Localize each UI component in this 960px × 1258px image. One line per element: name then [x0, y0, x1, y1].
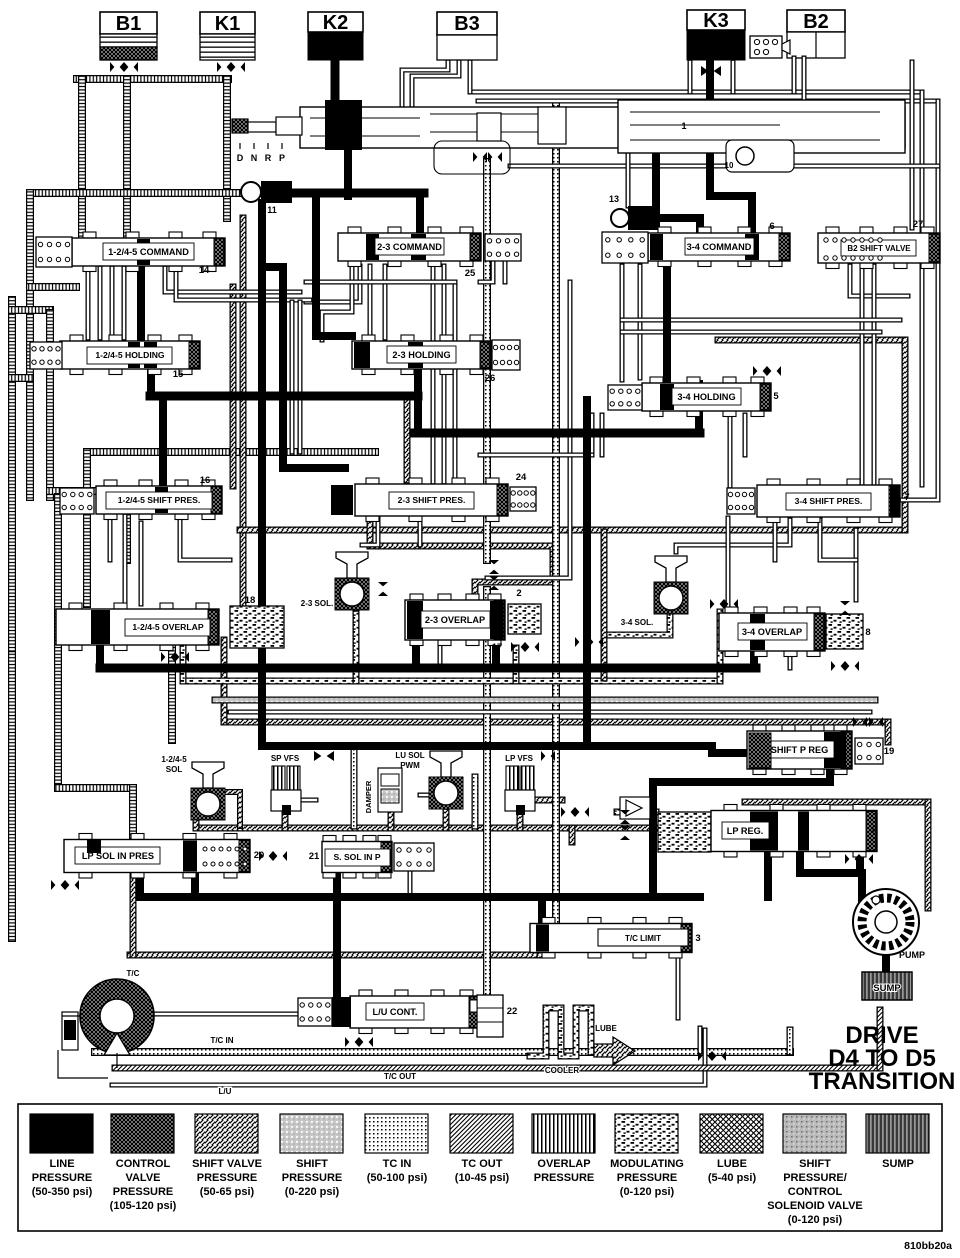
svg-text:PRESSURE: PRESSURE	[197, 1172, 258, 1184]
wire far left ladder	[8, 300, 16, 660]
wire ladder y790	[58, 784, 133, 792]
valve 3-4 COMMAND (6)	[648, 221, 790, 267]
connector for shift p reg	[855, 738, 883, 764]
wire ovl1 riser	[96, 644, 104, 668]
clutch K3	[687, 10, 745, 60]
svg-text:(0-120 psi): (0-120 psi)	[620, 1186, 675, 1198]
svg-text:(0-220 psi): (0-220 psi)	[285, 1186, 340, 1198]
torque converter	[62, 969, 154, 1068]
valve 22	[470, 995, 517, 1037]
svg-text:R: R	[265, 153, 272, 163]
svg-text:LINE: LINE	[49, 1158, 74, 1170]
valve B2 SHIFT VALVE (27)	[818, 219, 940, 269]
wire sv riser sol1	[193, 792, 200, 828]
wire hold3 conn drop b	[600, 415, 605, 455]
wire tc frame	[58, 1050, 108, 1078]
wire lpreg down c	[856, 851, 864, 873]
wire mid v c	[431, 266, 436, 482]
wire lucont left lines	[155, 1012, 300, 1017]
wire spvfs link	[300, 798, 316, 803]
wire ladder lp sol feed	[129, 788, 137, 840]
wire line x570	[487, 282, 570, 578]
svg-text:D: D	[237, 153, 244, 163]
svg-text:COOLER: COOLER	[545, 1066, 579, 1075]
hatched cap of shift p reg	[749, 733, 771, 768]
svg-text:(5-40 psi): (5-40 psi)	[708, 1172, 757, 1184]
wire pump feed	[858, 873, 866, 902]
wire sp1 out	[180, 516, 230, 560]
legend swatch TC OUT (10-45 psi)	[450, 1114, 513, 1184]
wire sv riser lpvfs	[517, 812, 524, 828]
check valve below K3	[701, 66, 721, 76]
modulating box of 3-4 overlap	[826, 614, 863, 649]
wire cmd1 to holding a	[98, 268, 103, 338]
svg-text:(0-120 psi): (0-120 psi)	[788, 1214, 843, 1226]
wire tclimit feed	[538, 897, 546, 924]
svg-text:1: 1	[681, 121, 686, 131]
svg-text:TRANSITION: TRANSITION	[809, 1068, 956, 1095]
svg-text:MODULATING: MODULATING	[610, 1158, 684, 1170]
valve 3-4 HOLDING (5)	[642, 377, 779, 417]
wire ladder x58 lower	[54, 497, 62, 788]
valve 1-2/4-5 COMMAND (14)	[72, 232, 225, 276]
svg-text:PUMP: PUMP	[899, 950, 925, 960]
wire rail y282	[306, 280, 455, 285]
wire tc drop x475	[472, 777, 479, 826]
wire ssol conn drop	[408, 872, 413, 897]
wire x728 drop	[726, 518, 731, 612]
wire drop x316	[316, 193, 352, 336]
wire tc drop x354	[351, 750, 358, 826]
wire B1 drop right	[123, 79, 131, 236]
svg-text:T/C: T/C	[127, 969, 140, 978]
wire sv trunk y530	[240, 527, 905, 534]
label T/C IN	[210, 1036, 233, 1045]
wire TC IN riser	[787, 1030, 794, 1052]
wire k3 stub	[688, 62, 693, 92]
wire sv line x233	[230, 287, 237, 486]
svg-text:B1: B1	[116, 13, 142, 35]
wire shift pressure trunk y700	[215, 697, 875, 704]
wire sv trunk y955	[130, 952, 540, 959]
svg-text:OVERLAP: OVERLAP	[537, 1158, 590, 1170]
valve T/C LIMIT (3)	[530, 918, 701, 959]
wire right line x922	[920, 92, 925, 485]
wire sp1 feed	[159, 396, 167, 486]
wire sv loop pump right	[925, 802, 932, 908]
svg-text:(50-65 psi): (50-65 psi)	[200, 1186, 255, 1198]
wire tclimit out	[676, 952, 681, 1018]
wire trunk y433	[414, 429, 700, 438]
solenoid LP VFS	[505, 754, 535, 815]
solenoid 1-2/4-5 SOL	[161, 755, 225, 820]
clutch B1	[100, 12, 157, 60]
wire lucont right out	[480, 1010, 500, 1015]
wire K2 to trunk	[344, 150, 352, 196]
svg-text:3-4 SOL.: 3-4 SOL.	[621, 618, 653, 627]
wire sp2 drop	[418, 517, 423, 545]
legend swatch OVERLAP PRESSURE	[532, 1114, 595, 1184]
svg-text:2-3 OVERLAP: 2-3 OVERLAP	[425, 615, 485, 625]
wire lu cont line	[112, 1030, 705, 1085]
wire cmd3 to holding b	[638, 266, 643, 378]
wire cmd2 to holding a	[368, 266, 373, 338]
valve S. SOL IN P (21)	[309, 836, 392, 879]
lube arrow	[594, 1037, 635, 1065]
wire sv loop pump top	[745, 799, 928, 806]
wire hold3 conn drop a	[590, 415, 595, 455]
wire cmd2 out left	[306, 266, 360, 302]
wire overlap trunk y668	[100, 664, 756, 673]
wire sv lp vfs out	[534, 797, 562, 804]
svg-text:LU SOL: LU SOL	[395, 751, 424, 760]
wire hold1 out	[147, 369, 155, 396]
svg-text:L/U CONT.: L/U CONT.	[373, 1007, 418, 1017]
check valves below B1	[110, 62, 138, 72]
wire cmd2 conn up b	[503, 262, 508, 282]
svg-text:CONTROL: CONTROL	[116, 1158, 171, 1170]
wire mid v e	[453, 284, 458, 482]
wire K2 feed	[331, 60, 340, 103]
svg-text:15: 15	[173, 369, 184, 380]
svg-text:SOL: SOL	[166, 765, 183, 774]
wire valve outlet y166	[510, 164, 938, 169]
wire sv riser lusol	[443, 812, 450, 828]
svg-text:3-4 OVERLAP: 3-4 OVERLAP	[742, 627, 802, 637]
connector for 2-3 holding	[492, 340, 520, 370]
svg-text:PRESSURE: PRESSURE	[113, 1186, 174, 1198]
pump	[853, 889, 925, 960]
node 11	[241, 181, 292, 215]
wire cmd1 drop c	[86, 268, 91, 338]
wire cmd3 to holding a	[620, 266, 625, 380]
check valves below manual valve	[434, 141, 510, 174]
connector for 1-2/4-5 holding	[30, 342, 62, 369]
valve 3-4 SHIFT PRES. (7)	[757, 479, 910, 523]
svg-text:SUMP: SUMP	[882, 1158, 914, 1170]
svg-text:PRESSURE: PRESSURE	[32, 1172, 93, 1184]
svg-text:5: 5	[773, 391, 779, 402]
wire rail to ovl3	[854, 530, 859, 600]
svg-text:(105-120 psi): (105-120 psi)	[110, 1200, 177, 1212]
wire B2 drop b	[802, 58, 807, 101]
node 13	[609, 194, 660, 230]
svg-text:SHIFT: SHIFT	[799, 1158, 831, 1170]
svg-text:PWM: PWM	[400, 761, 420, 770]
wire K1 drop	[223, 79, 231, 218]
wire tc line x556	[552, 105, 560, 925]
svg-text:22: 22	[507, 1006, 518, 1017]
wire sv loop 3-4 right	[902, 340, 909, 530]
wire TC OUT riser	[877, 1010, 884, 1068]
svg-text:(10-45 psi): (10-45 psi)	[455, 1172, 510, 1184]
manual selector valve 1	[232, 100, 905, 153]
wire ovl2 riser	[412, 640, 420, 668]
wire lucont drop dots	[698, 1028, 703, 1052]
svg-text:LP REG.: LP REG.	[727, 826, 764, 836]
label COOLER	[545, 1066, 579, 1075]
wire ladder x172	[168, 648, 176, 740]
drawing number	[904, 1240, 952, 1252]
valve 2-3 SHIFT PRES. (24)	[331, 472, 527, 522]
svg-text:14: 14	[199, 265, 210, 276]
wire TC OUT trunk	[115, 1065, 880, 1072]
legend swatch SHIFT PRESSURE (0-220 psi)	[280, 1114, 343, 1198]
wire k3 line b	[731, 62, 736, 92]
wire shiftpreg out	[653, 768, 830, 897]
connector for 3-4 command	[602, 232, 648, 263]
svg-text:13: 13	[609, 194, 619, 204]
wire sv stub x888	[885, 722, 892, 742]
wire sv riser tclimit	[537, 953, 544, 955]
wire cmd3 through	[663, 265, 671, 382]
legend swatch MODULATING PRESSURE (0-120 psi)	[610, 1114, 684, 1198]
wire cmd2 conn up a	[480, 262, 493, 282]
svg-text:26: 26	[485, 373, 496, 384]
wire left link y378	[12, 374, 30, 382]
wire sv feed 2-3 shift pres	[404, 400, 411, 480]
svg-text:4: 4	[869, 825, 875, 836]
svg-text:3-4 SHIFT PRES.: 3-4 SHIFT PRES.	[795, 496, 863, 506]
svg-text:1-2/4-5 COMMAND: 1-2/4-5 COMMAND	[108, 247, 189, 257]
svg-text:3: 3	[695, 933, 700, 944]
svg-text:2-3 SHIFT PRES.: 2-3 SHIFT PRES.	[398, 495, 466, 505]
wire mod riser 3-4sol	[604, 613, 670, 635]
clutch K2	[308, 12, 363, 60]
svg-text:3-4 COMMAND: 3-4 COMMAND	[687, 242, 752, 252]
svg-text:24: 24	[516, 472, 527, 483]
check valve symbols	[51, 366, 883, 1061]
wire ovl3 drop thin	[788, 653, 793, 668]
wire sv drop ssol	[569, 828, 576, 842]
svg-text:TC IN: TC IN	[383, 1158, 412, 1170]
valve L/U CONT (22)	[332, 990, 480, 1034]
wire far left lower ladder	[8, 655, 16, 938]
svg-text:DAMPER: DAMPER	[364, 780, 373, 813]
wire mod link lp reg	[617, 809, 656, 816]
svg-text:PRESSURE: PRESSURE	[534, 1172, 595, 1184]
svg-text:S. SOL IN P: S. SOL IN P	[333, 852, 380, 862]
label L/U	[219, 1087, 232, 1096]
svg-text:B2 SHIFT VALVE: B2 SHIFT VALVE	[847, 244, 911, 253]
wire K3 drop	[710, 62, 752, 236]
svg-text:T/C OUT: T/C OUT	[384, 1072, 416, 1081]
wire cmd1 to holding b	[110, 268, 115, 338]
wire branch x283	[262, 267, 345, 468]
wire tc line x487 lower	[483, 590, 491, 995]
svg-text:2-3 COMMAND: 2-3 COMMAND	[377, 242, 442, 252]
wire node13 out	[660, 218, 700, 236]
svg-text:SHIFT: SHIFT	[296, 1158, 328, 1170]
wire sp2 to 2-3 sol	[362, 517, 378, 545]
wire trunk y396	[150, 392, 418, 401]
wire main drop x262	[258, 203, 266, 746]
svg-text:SHIFT VALVE: SHIFT VALVE	[192, 1158, 262, 1170]
valve 1-2/4-5 SHIFT PRES. (16)	[96, 475, 222, 520]
svg-text:(50-100 psi): (50-100 psi)	[367, 1172, 428, 1184]
svg-text:2-3 HOLDING: 2-3 HOLDING	[392, 350, 450, 360]
svg-text:CONTROL: CONTROL	[788, 1186, 843, 1198]
solenoid SP VFS	[271, 754, 301, 815]
svg-text:PRESSURE: PRESSURE	[282, 1172, 343, 1184]
connector for l/u cont	[298, 998, 332, 1026]
modulating box of 2-3 overlap	[508, 604, 541, 634]
wire supply rail y79	[77, 75, 228, 83]
valve 9	[620, 788, 655, 819]
wire ladder to overlap1	[83, 452, 91, 604]
svg-text:K1: K1	[215, 13, 241, 35]
pin 10	[725, 140, 794, 172]
wire rail y332 right	[622, 330, 880, 335]
solenoid LU SOL PWM	[395, 751, 463, 809]
wire mid v a	[290, 302, 295, 452]
svg-text:LP VFS: LP VFS	[505, 754, 534, 763]
svg-text:T/C LIMIT: T/C LIMIT	[625, 934, 661, 943]
valve SHIFT P REG (19)	[747, 725, 894, 775]
svg-text:8: 8	[865, 627, 870, 638]
svg-text:11: 11	[267, 205, 277, 215]
svg-text:(50-350 psi): (50-350 psi)	[32, 1186, 93, 1198]
wire right v b	[872, 266, 877, 486]
svg-text:1-2/4-5 OVERLAP: 1-2/4-5 OVERLAP	[132, 622, 203, 632]
wire bottom trunk y897	[140, 893, 700, 901]
svg-text:27: 27	[913, 219, 924, 230]
wire top rail y101	[478, 99, 938, 104]
svg-text:16: 16	[200, 475, 211, 486]
svg-text:SOLENOID VALVE: SOLENOID VALVE	[767, 1200, 863, 1212]
wire cmd2 to holding b	[383, 266, 388, 338]
solenoid 2-3 SOL	[301, 552, 369, 610]
wire cooler coil	[530, 1008, 591, 1056]
wire lpreg down b	[800, 851, 862, 873]
connector for 2-3 command	[485, 234, 521, 261]
connector for 1-2/4-5 shift pres	[60, 488, 94, 514]
wire node13 feed thin	[626, 150, 631, 206]
wire lp sol left stub	[136, 872, 144, 897]
T/C LIMIT label box	[598, 929, 688, 946]
svg-text:TC OUT: TC OUT	[462, 1158, 503, 1170]
wire B2 right line	[910, 62, 915, 228]
wire cmd1 out right	[165, 268, 300, 292]
check valves below K1	[217, 62, 245, 72]
wire right line x938	[902, 101, 938, 500]
part 17	[492, 642, 503, 653]
wire sv z-path	[370, 517, 553, 606]
svg-text:B2: B2	[803, 11, 829, 33]
vertical check symbols	[378, 560, 850, 840]
wire b3 valve line	[468, 62, 473, 92]
svg-text:K2: K2	[323, 12, 349, 34]
wire sv line x243	[240, 218, 247, 627]
wire sv sol1 link	[222, 792, 240, 826]
wire trunk y746	[262, 746, 748, 753]
wire ovl3 riser	[750, 650, 758, 668]
svg-text:810bb20a: 810bb20a	[904, 1240, 952, 1252]
valve LP REG (4)	[711, 805, 877, 858]
valve 1-2/4-5 OVERLAP (18)	[56, 595, 255, 651]
slug lp sol left	[87, 840, 101, 853]
wire mod riser ovl3	[717, 612, 724, 681]
svg-text:10: 10	[725, 161, 734, 170]
clutch B3	[437, 12, 497, 60]
svg-text:9: 9	[650, 788, 655, 797]
wire tc line x487 upper	[483, 162, 491, 560]
wire sp3 drop a	[773, 520, 778, 560]
wire ssol drop	[333, 872, 341, 1000]
svg-text:1-2/4-5: 1-2/4-5	[161, 755, 187, 764]
wire sv riser spvfs	[282, 812, 289, 828]
solenoid 3-4 SOL	[621, 556, 688, 627]
svg-text:PRESSURE: PRESSURE	[617, 1172, 678, 1184]
valve 2-3 OVERLAP (2)	[405, 588, 522, 646]
svg-text:SP VFS: SP VFS	[271, 754, 300, 763]
wire cmd2 s-curve	[322, 266, 352, 340]
wire ladder rail y491	[50, 487, 96, 495]
legend box	[18, 1104, 942, 1231]
svg-text:3-4 HOLDING: 3-4 HOLDING	[677, 392, 735, 402]
svg-text:17: 17	[492, 642, 503, 653]
wire sp1 drop b	[123, 516, 128, 604]
legend swatch SHIFT PRESSURE CONTROL SOLENOID VALVE (0-120 psi)	[767, 1114, 863, 1226]
svg-text:K3: K3	[703, 10, 729, 32]
wire cmd1 out right2	[176, 268, 310, 300]
wire manual to node13	[652, 150, 660, 206]
label LUBE	[595, 1024, 617, 1033]
wire sv riser x133	[130, 875, 137, 955]
svg-text:1-2/4-5 SHIFT PRES.: 1-2/4-5 SHIFT PRES.	[118, 495, 201, 505]
legend swatch SUMP	[866, 1114, 929, 1170]
wire lpreg down a	[764, 851, 772, 897]
svg-text:6: 6	[769, 221, 774, 232]
legend swatch TC IN (50-100 psi)	[365, 1114, 428, 1184]
wire drop x587	[583, 400, 591, 746]
wire B2 drop a	[792, 58, 797, 92]
wire sp3 to 3-4 sol	[676, 520, 790, 552]
wire sv trunk y828	[196, 825, 658, 832]
wire cmd1 feed	[137, 262, 145, 342]
connector at B2 left	[750, 36, 790, 58]
svg-text:18: 18	[245, 595, 256, 606]
svg-text:25: 25	[465, 268, 476, 279]
wire trunk y193	[292, 189, 424, 198]
wire mid v b	[298, 302, 303, 452]
svg-text:N: N	[251, 153, 258, 163]
svg-text:VALVE: VALVE	[125, 1172, 160, 1184]
valve 2-3 HOLDING (26)	[352, 335, 495, 384]
svg-text:L/U: L/U	[219, 1087, 232, 1096]
wire TC IN trunk	[95, 1048, 790, 1056]
wire ovl2 drop thin	[438, 642, 443, 668]
label T/C OUT	[384, 1072, 416, 1081]
wire lusol link	[420, 793, 430, 798]
wire cmd1 drop d	[122, 268, 127, 338]
legend swatch LUBE (5-40 psi)	[700, 1114, 763, 1184]
svg-text:B3: B3	[454, 13, 480, 35]
wire node11 supply rail	[30, 189, 241, 197]
wire mod trunk y681	[183, 678, 720, 685]
connector holes in B2 shift valve	[824, 238, 882, 260]
sump	[862, 972, 912, 1000]
wire sv riser x224	[221, 640, 228, 722]
svg-text:T/C IN: T/C IN	[210, 1036, 233, 1045]
wire hold3 riser	[695, 384, 703, 433]
wire sv loop 3-4 top	[718, 337, 905, 344]
svg-text:7: 7	[904, 492, 909, 503]
wire left link y310	[12, 306, 50, 314]
wire ovl2b riser	[492, 635, 500, 668]
wire ladder x127	[123, 491, 131, 560]
valve LP SOL IN PRES (20)	[64, 834, 264, 879]
